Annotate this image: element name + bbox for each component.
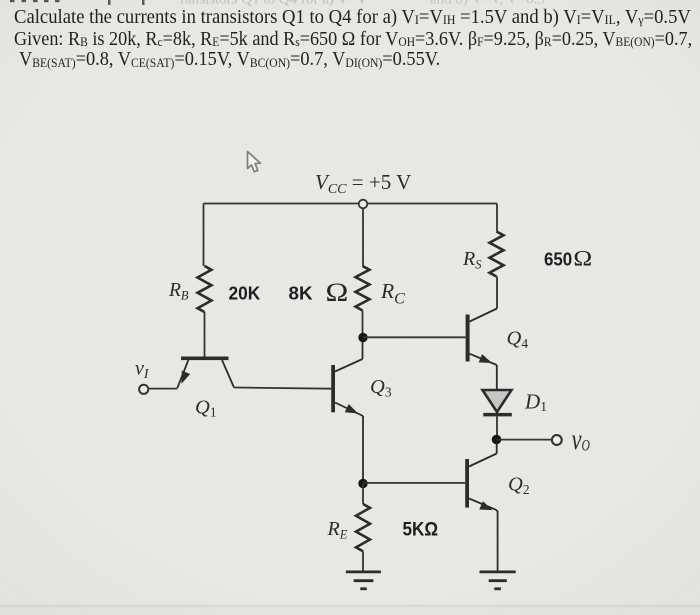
node B junction dot (D1 cathode / Q2 collector / output)	[492, 435, 502, 445]
ground under RE	[346, 572, 381, 589]
node vO terminal circle	[552, 435, 562, 445]
wire: Q1 collector to Q3 base	[234, 388, 331, 389]
transistor Q4	[466, 277, 497, 391]
problem statement line 1	[14, 7, 691, 28]
mouse cursor	[248, 152, 261, 172]
diode D1	[483, 390, 512, 435]
wire: Q3 emitter to node C	[362, 416, 364, 484]
wire: node C to RE	[362, 484, 364, 505]
wire: input lead to vI terminal	[148, 388, 177, 390]
wire: top VCC rail	[204, 203, 498, 205]
problem statement line 2	[14, 29, 692, 50]
paper texture overlay	[0, 0, 1, 1]
wire: node A to Q4 base	[363, 336, 466, 338]
resistor RE	[356, 504, 370, 551]
node A junction dot (RC / Q3 collector / Q4 base)	[358, 333, 367, 342]
cut-off previous text line at top	[10, 0, 545, 8]
resistor RS	[490, 232, 504, 277]
wire: RC to node A	[362, 311, 364, 338]
transistor Q1 (input, drawn sideways: horizontal base bar)	[177, 357, 234, 389]
resistor RC	[356, 266, 370, 311]
transistor Q2	[465, 444, 497, 572]
wire: RB to Q1 base	[204, 312, 206, 357]
wire: left branch from rail to RB	[203, 204, 205, 267]
problem statement line 3	[19, 49, 440, 70]
node C junction dot (Q3 emitter / RE / Q2 base)	[358, 479, 367, 488]
wire: node C to Q2 base	[363, 482, 465, 484]
node VCC terminal circle	[359, 200, 368, 209]
ground under Q2	[480, 572, 516, 589]
wire: output lead to vO terminal	[497, 439, 552, 441]
node vI terminal circle	[139, 385, 148, 394]
faint vignette	[0, 0, 1, 1]
wire: right branch from rail to RS	[496, 204, 498, 232]
wire: middle branch from VCC node to RC	[362, 208, 364, 266]
resistor RB	[198, 266, 212, 312]
transistor Q3	[331, 342, 363, 416]
wire: RE to ground	[362, 551, 364, 572]
label VCC = +5 V	[315, 170, 411, 197]
